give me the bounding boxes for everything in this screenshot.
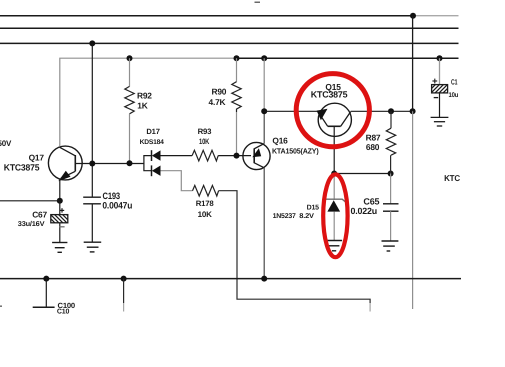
svg-text:KDS184: KDS184 (140, 139, 165, 146)
red annotation circle around Q15 (296, 74, 369, 147)
svg-text:1N5237: 1N5237 (273, 213, 296, 220)
wire Q16 emitter up to node (263, 111, 265, 143)
svg-text:0.022u: 0.022u (351, 206, 378, 216)
label C67 minus sign (60, 226, 65, 228)
svg-text:R93: R93 (198, 127, 213, 136)
node junction dot on line 1 at x=413 (410, 13, 416, 19)
wire Q15 right side to x=412.6 (351, 110, 413, 112)
label C1 plus sign (432, 79, 437, 84)
resistor R92 bottom lead (129, 114, 131, 164)
resistor R87 bottom lead (390, 155, 392, 173)
transistor Q17 KTC3875 (48, 146, 82, 181)
node junction dot R87 top (388, 108, 394, 114)
capacitor C67 electrolytic (51, 201, 68, 243)
diode D17 KDS184 dual diode (144, 150, 161, 176)
svg-text:1K: 1K (137, 101, 147, 111)
ground for C65 (382, 241, 399, 251)
svg-text:KTC: KTC (444, 173, 460, 183)
svg-text:10K: 10K (198, 210, 212, 219)
wire top bus line 2 (0, 27, 459, 29)
svg-text:R87: R87 (366, 132, 381, 142)
red annotation ellipse around D15 (323, 174, 347, 257)
svg-text:D17: D17 (146, 127, 159, 136)
node junction dot Q15 base node (261, 108, 267, 114)
wire stub down from bottom rail x=123.6 (123, 279, 125, 303)
transistor Q15 KTC3875 (317, 103, 352, 136)
wire Q15 base-extension down to D15 node (333, 126, 335, 173)
svg-text:KTA1505(AZY): KTA1505(AZY) (272, 146, 319, 155)
wire D17 bottom anode to R178 (gray elbow) (161, 171, 193, 191)
label C1 minus sign (434, 97, 439, 99)
wire vertical x=92.3 from line3 to Q17 base node (91, 43, 93, 163)
wire stub at left edge faded (0, 305, 2, 307)
svg-text:KTC3875: KTC3875 (311, 89, 348, 99)
resistor R87 zigzag (386, 128, 395, 155)
node junction dot line4 x=264.2 (261, 55, 267, 61)
capacitor C100 (partially faded) (33, 279, 55, 308)
wire bottom rail y=278.8 (0, 278, 461, 280)
label C67 plus sign (60, 208, 64, 212)
node junction dot R87 bottom (388, 171, 394, 177)
svg-text:33u/16V: 33u/16V (18, 220, 45, 228)
wire D17 top anode to R93 (161, 155, 193, 157)
partial text tick at top (255, 1, 261, 3)
ground for C1 (431, 117, 449, 126)
resistor R93 zigzag (192, 150, 218, 161)
node junction dot at x=412.6 wire end (410, 108, 416, 114)
svg-text:KTC3875: KTC3875 (4, 163, 40, 173)
svg-text:8.2V: 8.2V (299, 213, 314, 220)
node junction dot line4 x=439.5 (C1 tap) (437, 55, 443, 61)
node junction dot Q17 base x=129.5 (127, 160, 133, 166)
svg-text:Q17: Q17 (29, 152, 45, 162)
wire stub fading tail (123, 303, 125, 312)
resistor R92 top lead (129, 58, 131, 86)
svg-text:D15: D15 (307, 204, 320, 211)
node junction dot line4 x=236.5 (234, 55, 240, 61)
svg-text:R90: R90 (212, 86, 227, 96)
node junction dot D15 top (331, 171, 337, 177)
resistor R90 top lead (236, 58, 238, 81)
wire Q17 emitter lead (59, 179, 61, 201)
resistor R178 zigzag (193, 185, 219, 196)
wire vertical x=92.3 Q17 base node down to C193 (91, 164, 93, 198)
wire top bus line 1 (gray right portion) (413, 15, 459, 17)
wire Q16 collector down to bottom rail (263, 168, 265, 279)
resistor R87 top lead (390, 111, 392, 128)
ground for D15 (326, 241, 342, 251)
resistor R90 bottom lead (236, 112, 238, 156)
resistor R90 zigzag (232, 82, 241, 112)
svg-text:C65: C65 (363, 196, 379, 206)
ground for C193 (84, 242, 102, 252)
transistor Q16 KTA1505(AZY) (243, 142, 270, 169)
wire D15 node to R87 bottom (334, 173, 390, 175)
diode D15 zener 1N5237 (324, 174, 345, 241)
node junction dot bottom rail x=264.2 (Q16 collector) (261, 276, 267, 282)
svg-text:10u: 10u (449, 92, 459, 99)
svg-text:R178: R178 (196, 199, 215, 208)
ground for C67 (52, 243, 67, 253)
node junction dot Q17 base x=92.3 (89, 161, 95, 167)
wire vertical x=412.6 black top portion (412, 16, 414, 112)
svg-text:C193: C193 (103, 191, 121, 201)
wire x=264.2 gray from bus line 4 to node (263, 58, 265, 111)
wire Q17 base to D17 node (75, 163, 143, 165)
capacitor C1 electrolytic top-right (432, 58, 448, 117)
wire R178 elbow fading tail (369, 303, 371, 312)
svg-text:C1: C1 (451, 77, 458, 86)
node junction dot bottom rail x=46.3 (43, 276, 49, 282)
wire R178 right lead and long elbow down-right-down (219, 191, 371, 303)
wire vertical x=412.6 gray lower portion (412, 111, 414, 309)
svg-text:680: 680 (366, 142, 380, 152)
node junction dot Q17 emitter (57, 198, 63, 204)
wire R93 to Q16 base node (218, 155, 251, 157)
wire bus line 4 gray left portion with corner to Q17 collector (60, 58, 237, 146)
capacitor C65 (383, 174, 399, 242)
node junction dot R93/R90/Q16 base (234, 153, 240, 159)
wire bus line 4 black right portion (236, 57, 458, 59)
svg-text:50V: 50V (0, 139, 12, 148)
svg-text:10K: 10K (199, 137, 210, 146)
svg-text:Q16: Q16 (272, 135, 288, 145)
wire Q15 base from node (264, 110, 318, 112)
wire top bus line 3 (0, 42, 459, 44)
svg-text:4.7K: 4.7K (209, 97, 226, 107)
svg-text:C10: C10 (57, 309, 70, 316)
node junction dot on line 3 at x=92 (89, 40, 95, 46)
capacitor C193 (83, 197, 101, 242)
wire emitter node to left edge (0, 200, 60, 202)
node junction dot line4 x=129.5 (127, 55, 133, 61)
resistor R92 zigzag (125, 86, 134, 113)
svg-text:0.0047u: 0.0047u (102, 201, 132, 211)
svg-text:R92: R92 (137, 90, 152, 100)
node junction dot bottom rail x=123.6 (121, 276, 127, 282)
svg-text:C67: C67 (32, 209, 47, 219)
wire top bus line 1 (black portion) (0, 15, 413, 17)
